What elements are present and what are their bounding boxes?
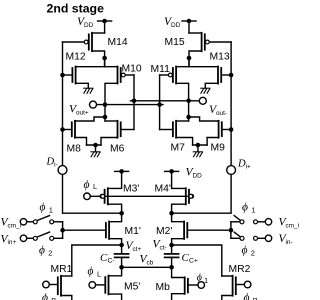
svg-text:M12: M12 <box>66 52 86 63</box>
svg-text:ϕ: ϕ <box>40 202 46 214</box>
svg-text:DD: DD <box>193 172 203 179</box>
svg-text:ct-: ct- <box>160 244 167 251</box>
svg-text:ϕ: ϕ <box>42 292 48 300</box>
svg-text:i-: i- <box>54 161 58 168</box>
svg-text:C-: C- <box>108 258 115 265</box>
svg-text:B: B <box>51 296 56 300</box>
svg-text:M5': M5' <box>124 282 140 293</box>
svg-text:MR1: MR1 <box>51 264 73 275</box>
svg-text:M11: M11 <box>151 64 171 75</box>
svg-text:M2': M2' <box>156 226 172 237</box>
svg-text:M1': M1' <box>125 226 141 237</box>
svg-text:M3': M3' <box>123 184 139 195</box>
svg-text:Mb: Mb <box>156 282 171 293</box>
svg-text:2: 2 <box>251 249 255 258</box>
svg-text:ϕ: ϕ <box>84 179 90 191</box>
svg-text:ϕ: ϕ <box>197 273 202 284</box>
svg-text:in+: in+ <box>8 239 17 246</box>
svg-text:M14: M14 <box>108 37 128 48</box>
svg-text:M6: M6 <box>110 143 125 154</box>
svg-text:ϕ: ϕ <box>244 292 250 300</box>
svg-text:1: 1 <box>204 276 208 285</box>
svg-text:M15: M15 <box>165 37 185 48</box>
svg-text:DD: DD <box>171 22 181 29</box>
svg-text:L: L <box>97 270 101 279</box>
svg-text:C+: C+ <box>189 258 198 265</box>
svg-text:cm_i: cm_i <box>8 222 22 229</box>
svg-text:M8: M8 <box>67 143 82 154</box>
svg-text:B: B <box>253 296 258 300</box>
svg-text:M7: M7 <box>171 143 186 154</box>
svg-text:out-: out- <box>216 110 227 117</box>
svg-text:out+: out+ <box>76 109 89 116</box>
svg-text:1: 1 <box>251 206 255 215</box>
svg-text:M9: M9 <box>211 143 226 154</box>
svg-text:M4': M4' <box>155 184 171 195</box>
svg-text:1: 1 <box>49 206 53 215</box>
svg-text:ϕ: ϕ <box>242 245 248 257</box>
svg-text:MR2: MR2 <box>229 264 251 275</box>
svg-text:cm_i: cm_i <box>286 222 300 229</box>
svg-text:ϕ: ϕ <box>88 266 94 278</box>
svg-text:DD: DD <box>84 22 94 29</box>
svg-text:2: 2 <box>48 249 52 258</box>
svg-text:M10: M10 <box>122 64 142 75</box>
svg-text:2nd stage: 2nd stage <box>47 1 105 15</box>
svg-text:in-: in- <box>286 239 293 246</box>
svg-text:ϕ: ϕ <box>39 245 45 257</box>
svg-text:cb: cb <box>147 259 154 266</box>
svg-text:ϕ: ϕ <box>242 201 248 213</box>
svg-text:M13: M13 <box>210 52 230 63</box>
svg-text:L: L <box>93 182 97 191</box>
svg-text:i+: i+ <box>246 163 251 170</box>
